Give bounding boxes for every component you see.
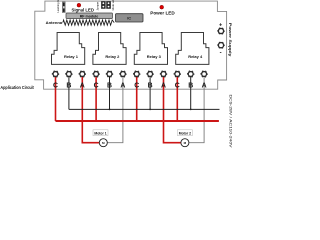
wire B1 [68,77,70,109]
svg-text:Relay 4: Relay 4 [188,54,203,59]
svg-text:B: B [107,82,112,89]
wire A3 to motor2 [164,77,181,143]
wire C1 [55,77,57,121]
terminal C4 (screw) [174,71,181,78]
bus junction C3 [136,120,138,122]
svg-text:-: - [220,50,222,56]
svg-text:Power LED: Power LED [150,10,175,15]
terminal C2 (screw) [93,71,100,78]
bus junction C4 [176,120,178,122]
svg-text:Antenna: Antenna [46,21,64,25]
wire A1 to motor1 [82,77,99,143]
terminal B4 (screw) [187,71,194,78]
svg-text:RF module: RF module [80,14,99,18]
motor 2 [177,130,192,147]
svg-text:B: B [188,82,193,89]
power terminal + [218,23,225,35]
svg-text:Application Circuit: Application Circuit [0,85,34,90]
terminal A2 (screw) [120,71,127,78]
jumper block [101,1,111,8]
svg-text:A: A [202,82,207,89]
terminal labels C B A x4 [53,82,207,89]
svg-text:Signal LED: Signal LED [72,7,94,12]
svg-text:M: M [102,141,105,145]
wire B2 [109,77,111,109]
negative bus [69,108,220,110]
RF module [66,13,113,19]
wire B4 [190,77,192,109]
power terminal - [218,42,225,57]
wire B3 [149,77,151,109]
terminal B1 (screw) [66,71,73,78]
terminal A1 (screw) [79,71,86,78]
bus junction B2 [109,109,111,111]
svg-text:C: C [134,82,139,89]
relay 1 [52,33,85,65]
terminal B3 (screw) [147,71,154,78]
positive bus [56,120,219,122]
svg-text:A: A [161,82,166,89]
bus junction C2 [95,120,97,122]
antenna coil [63,20,114,25]
IC U1 [116,14,144,22]
wire A2 to motor1 [107,77,123,143]
bus junction B3 [149,109,151,111]
svg-text:Relay 1: Relay 1 [64,54,79,59]
svg-text:Learning button: Learning button [56,0,60,13]
svg-text:C: C [53,82,58,89]
svg-text:B: B [148,82,153,89]
svg-text:Power Supply: Power Supply [228,23,232,58]
terminal A4 (screw) [201,71,208,78]
motor 1 [93,130,108,147]
wire A4 to motor2 [189,77,204,143]
board outline [35,1,227,89]
svg-text:Motor 1: Motor 1 [94,131,106,135]
svg-text:C: C [94,82,99,89]
svg-text:B: B [66,82,71,89]
svg-text:Relay 2: Relay 2 [105,54,120,59]
relay 2 [93,33,126,65]
terminal B2 (screw) [106,71,113,78]
svg-text:A: A [120,82,125,89]
terminal A3 (screw) [160,71,167,78]
svg-text:M: M [184,141,187,145]
wire C2 [95,77,97,121]
bus junction B4 [190,109,192,111]
svg-text:Mode select: Mode select [111,0,115,11]
wire C4 [176,77,178,121]
svg-text:A: A [80,82,85,89]
wire C3 [136,77,138,121]
relay 3 [134,33,167,65]
power LED [160,5,164,9]
svg-text:C: C [175,82,180,89]
svg-text:Relay 3: Relay 3 [147,54,162,59]
svg-text:IC: IC [127,16,131,21]
svg-text:DC9-28V / AC110-240V: DC9-28V / AC110-240V [228,95,232,149]
svg-text:Motor 2: Motor 2 [179,131,191,135]
svg-text:Jumper: Jumper [96,2,100,11]
relay 4 [176,33,209,65]
terminal C1 (screw) [52,71,59,78]
learning button [62,2,65,13]
signal LED [77,3,81,7]
terminal C3 (screw) [133,71,140,78]
